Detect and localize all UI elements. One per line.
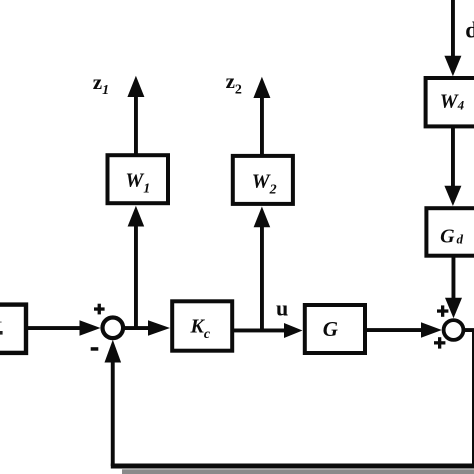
- shadow under bottom line: [122, 469, 474, 474]
- block W3 (cut off at left edge): [0, 305, 26, 353]
- wire: branch up to W1: [134, 226, 138, 328]
- block W4: [426, 78, 474, 126]
- wire: S2 to right edge (output y): [465, 328, 474, 332]
- summing junction S1: [103, 318, 124, 339]
- block W2: [233, 156, 293, 204]
- wire: feedback down right edge: [472, 330, 474, 467]
- plus sign top at S2: [437, 305, 448, 316]
- svg-text:u: u: [276, 295, 288, 320]
- summing junction S2: [444, 320, 464, 340]
- svg-text:G: G: [323, 317, 338, 341]
- arrowhead into S1 bottom: [105, 340, 122, 363]
- arrowhead into Kc: [148, 320, 170, 335]
- wire: Kc to G: [234, 329, 286, 333]
- wire: feedback up to S1: [111, 361, 115, 466]
- wire: branch up to W2: [260, 227, 264, 331]
- wire: W1 up to z1: [134, 95, 138, 155]
- block Gd: [426, 208, 474, 256]
- wire: disturbance d input: [451, 0, 455, 58]
- arrowhead into W2 bottom: [254, 207, 271, 228]
- arrowhead into S2 top: [445, 298, 462, 319]
- plus sign bottom at S2: [434, 337, 445, 348]
- wire: W4 to Gd: [451, 128, 455, 188]
- arrowhead z2 output: [253, 77, 270, 98]
- arrowhead into Gd: [444, 186, 461, 206]
- wire: summer S1 to Kc: [125, 326, 153, 330]
- wire: Gd down to S2: [452, 258, 456, 299]
- svg-text:d: d: [465, 18, 474, 43]
- arrowhead into summer S1: [80, 320, 101, 335]
- minus sign at S1: [91, 347, 99, 351]
- arrowhead z1 output: [127, 76, 144, 97]
- wire: feedback bottom line: [111, 464, 474, 469]
- wire: W2 up to z2: [260, 96, 264, 156]
- wire: left block to summer S1: [26, 326, 82, 330]
- arrowhead into W4: [444, 56, 461, 77]
- block Kc: [172, 301, 232, 350]
- label fragment inside left block: [0, 331, 3, 335]
- block W1: [108, 155, 169, 203]
- arrowhead into S2: [421, 322, 442, 337]
- block G: [305, 305, 365, 353]
- wire: G to summer S2: [367, 328, 423, 332]
- arrowhead into G: [284, 323, 303, 338]
- arrowhead into W1 bottom: [128, 206, 145, 227]
- plus sign at S1: [94, 304, 105, 315]
